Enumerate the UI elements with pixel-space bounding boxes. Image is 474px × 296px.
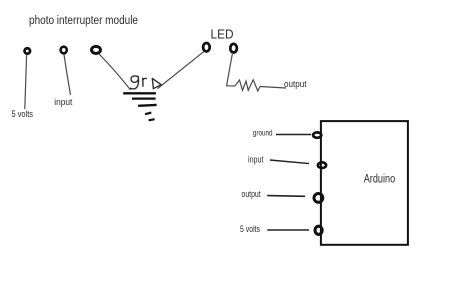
wire input label to input pin [270,160,309,164]
svg-text:ground: ground [253,127,273,137]
wire resistor R1 to output label [260,87,286,89]
terminal 5 volts (module pin) [25,48,31,54]
ground [123,93,156,120]
pin 5 volts (Arduino) [315,226,322,234]
svg-text:LED: LED [211,27,234,42]
svg-text:5 volts: 5 volts [240,224,260,234]
terminal input (module pin) [61,47,67,54]
svg-text:input: input [54,97,72,108]
wire ground terminal to ground symbol [99,54,131,90]
svg-text:5 volts: 5 volts [12,109,34,120]
wire input terminal to label [64,55,71,96]
pin ground (Arduino) [313,132,321,137]
Arduino U1 (body) [321,121,408,245]
wire ground label to ground pin [276,134,311,136]
pin input (Arduino) [318,162,326,168]
svg-text:photo interrupter module: photo interrupter module [29,15,138,27]
wire output label to output pin [267,195,305,198]
pin output (Arduino) [314,194,323,203]
LED cathode terminal [230,44,237,53]
svg-text:output: output [284,79,307,89]
wire ground symbol to LED anode [158,52,204,89]
svg-text:input: input [248,154,264,164]
resistor R1 [235,80,260,91]
wire LED cathode to resistor R1 [227,54,235,86]
LED anode terminal [203,43,210,52]
wire 5 volts label to 5 volts pin [267,229,309,231]
svg-text:Arduino: Arduino [364,174,396,186]
wire 5 volts terminal to label [25,55,27,110]
terminal ground (module pin) [92,46,101,53]
ground label "grd" (handwritten) [131,76,162,89]
svg-text:output: output [242,189,262,199]
